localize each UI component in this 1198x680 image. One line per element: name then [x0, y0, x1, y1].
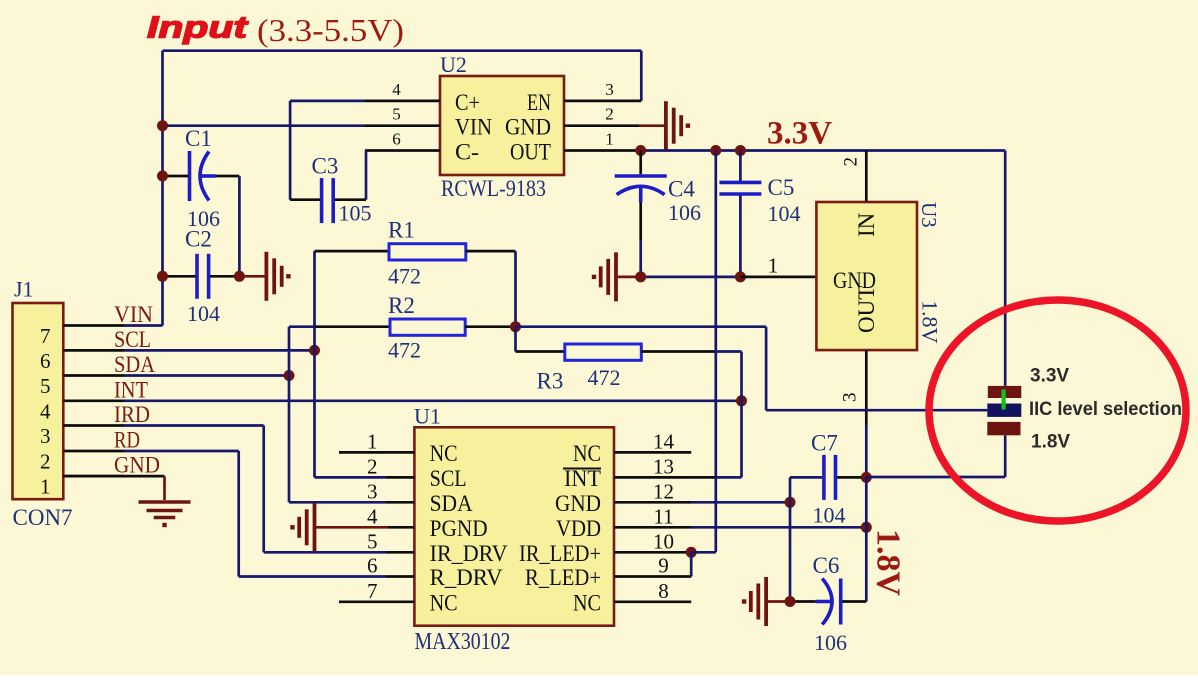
svg-text:1: 1	[605, 130, 614, 149]
resistor R3	[514, 327, 517, 352]
svg-text:NC: NC	[573, 441, 601, 466]
svg-text:472: 472	[388, 264, 421, 289]
wire SCL vertical bus	[313, 251, 316, 477]
svg-text:3: 3	[840, 393, 861, 403]
svg-text:C7: C7	[811, 431, 838, 456]
svg-text:GND: GND	[505, 115, 551, 140]
U1 pin 12 stub	[614, 501, 691, 504]
U3 pin 2 wire	[865, 151, 868, 203]
wire SCL to U1 pin2	[315, 476, 387, 479]
svg-text:INT: INT	[564, 466, 601, 491]
U1 pin 5 stub	[386, 551, 414, 554]
svg-text:CON7: CON7	[13, 505, 73, 530]
wire VIN to U2	[163, 124, 366, 127]
wire LED+ pin9 link	[690, 552, 693, 576]
svg-text:C5: C5	[768, 175, 795, 200]
wire C1 to C2 vertical	[238, 176, 241, 276]
wire RD	[124, 450, 239, 453]
J1 pin 3 stub	[63, 424, 124, 427]
resistor R2	[289, 325, 315, 328]
svg-text:2: 2	[841, 157, 862, 167]
svg-text:7: 7	[40, 324, 51, 348]
svg-text:IR_LED+: IR_LED+	[519, 541, 601, 566]
junction rail C4	[635, 145, 646, 156]
C5 top wire	[739, 151, 742, 182]
svg-text:104: 104	[813, 503, 846, 528]
svg-text:106: 106	[668, 200, 701, 225]
U1 pin 11 stub	[614, 526, 691, 529]
U2 pin 4 stub	[365, 100, 440, 103]
svg-text:11: 11	[653, 504, 673, 528]
J1 pin 1 stub	[63, 475, 124, 478]
svg-text:10: 10	[653, 529, 674, 553]
U1 pin 7 stub	[339, 600, 414, 603]
junction LED+ pins	[686, 547, 697, 558]
wire SDA	[124, 374, 289, 377]
svg-text:R2: R2	[388, 293, 415, 318]
capacitor C5	[719, 181, 761, 185]
svg-text:SDA: SDA	[430, 491, 473, 516]
svg-text:VIN: VIN	[114, 302, 153, 327]
svg-text:6: 6	[367, 554, 378, 578]
svg-text:IR_DRV: IR_DRV	[430, 541, 508, 566]
svg-text:U2: U2	[440, 52, 467, 77]
net LED supply vertical	[714, 151, 717, 553]
jumper pad 3.3V	[988, 386, 1022, 398]
wire ground row to ground symbol	[618, 276, 641, 279]
svg-text:RCWL-9183: RCWL-9183	[441, 176, 546, 201]
svg-text:NC: NC	[430, 590, 458, 615]
svg-text:C6: C6	[813, 553, 840, 578]
wire ground row	[641, 276, 741, 279]
capacitor C1	[188, 151, 192, 201]
net 3.3V rail	[641, 149, 1006, 152]
svg-text:R_LED+: R_LED+	[525, 565, 601, 590]
svg-text:C3: C3	[312, 154, 339, 179]
junction rail C5	[735, 145, 746, 156]
wire PGND to ground	[316, 526, 388, 529]
svg-text:MAX30102: MAX30102	[415, 629, 511, 655]
junction pull-up rail	[510, 321, 521, 332]
svg-text:3: 3	[367, 479, 378, 503]
svg-text:U3: U3	[917, 202, 941, 228]
svg-text:104: 104	[187, 301, 220, 326]
ic U1 body	[414, 427, 614, 625]
capacitor C6	[822, 579, 832, 625]
wire GND from J1	[63, 475, 164, 478]
svg-text:2: 2	[40, 450, 51, 474]
ground C6	[764, 577, 768, 626]
wire VDD net	[691, 526, 866, 529]
J1 pin 5 stub	[63, 374, 124, 377]
svg-text:VDD: VDD	[556, 516, 601, 541]
C1 left wire	[163, 175, 189, 178]
op-amp U2 body	[440, 76, 564, 175]
svg-text:Input: Input	[147, 10, 249, 45]
junction ground row C4	[635, 271, 646, 282]
wire C6 ground	[768, 600, 790, 603]
ground C2	[264, 252, 268, 301]
wire U2 EN drop	[640, 51, 643, 101]
U1 pin 9 stub	[614, 575, 691, 578]
svg-text:2: 2	[367, 454, 378, 478]
svg-text:4: 4	[367, 504, 378, 528]
net VIN top rail wire	[163, 49, 642, 52]
svg-text:3: 3	[40, 424, 51, 448]
net 1.8V vertical	[865, 477, 868, 601]
jumper pad 1.8V	[987, 422, 1020, 435]
wire U2 GND to ground	[640, 124, 665, 127]
svg-text:SCL: SCL	[430, 466, 467, 491]
U1 pin 13 stub	[614, 476, 716, 479]
svg-text:(3.3-5.5V): (3.3-5.5V)	[257, 12, 404, 48]
junction C2 right	[234, 271, 245, 282]
connector J1 body	[13, 303, 64, 499]
svg-text:8: 8	[658, 579, 669, 603]
wire C+ to C3	[290, 100, 365, 103]
wire SDA vertical bus	[288, 327, 291, 503]
svg-text:C1: C1	[185, 126, 212, 151]
junction INT	[736, 395, 747, 406]
svg-text:1.8V: 1.8V	[870, 529, 907, 597]
capacitor C2	[195, 254, 199, 299]
svg-text:R3: R3	[537, 369, 564, 394]
C2 right wire	[210, 275, 239, 278]
junction VDD net	[861, 522, 872, 533]
svg-text:RD: RD	[114, 428, 140, 453]
svg-text:1.8V: 1.8V	[918, 300, 943, 344]
U1 pin 6 stub	[386, 575, 414, 578]
wire C3 to C-	[334, 198, 366, 201]
ground J1	[139, 500, 191, 503]
svg-text:472: 472	[588, 365, 621, 390]
junction SCL	[309, 345, 320, 356]
svg-text:IN: IN	[854, 212, 879, 237]
U1 pin 2 stub	[386, 476, 414, 479]
svg-text:C4: C4	[668, 177, 695, 202]
svg-text:12: 12	[653, 479, 674, 503]
svg-text:6: 6	[40, 349, 51, 373]
junction C6 left	[785, 596, 796, 607]
svg-text:INT: INT	[114, 377, 148, 402]
wire GND net to C7/C6	[691, 501, 790, 504]
U2 pin 6 stub	[365, 149, 440, 152]
svg-text:NC: NC	[573, 590, 601, 615]
U1 pin 14 stub	[614, 451, 691, 454]
svg-text:9: 9	[658, 554, 669, 578]
net pull-up rail to jumper	[516, 325, 767, 328]
svg-text:2: 2	[605, 105, 614, 124]
C4 bottom wire	[639, 202, 642, 240]
svg-text:C+: C+	[455, 90, 480, 115]
svg-text:3.3V: 3.3V	[767, 116, 832, 152]
svg-text:GND: GND	[114, 453, 160, 478]
wire R1 right vertical	[514, 251, 517, 327]
svg-text:1.8V: 1.8V	[1031, 431, 1070, 452]
wire SCL	[124, 349, 315, 352]
J1 pin 7 stub	[63, 324, 124, 327]
wire R3 to INT net	[740, 352, 743, 478]
U1 pin 3 stub	[386, 501, 414, 504]
svg-text:GND: GND	[555, 491, 601, 516]
J1 pin 4 stub	[63, 399, 124, 402]
svg-text:IRD: IRD	[114, 402, 150, 427]
junction C7 right 1.8V	[861, 472, 872, 483]
capacitor C4	[615, 174, 667, 178]
junction C1 left	[157, 171, 168, 182]
junction rail LED supply	[710, 145, 721, 156]
C4 top wire	[639, 151, 642, 175]
J1 pin 6 stub	[63, 349, 124, 352]
svg-text:J1: J1	[14, 277, 34, 302]
svg-text:472: 472	[388, 338, 421, 363]
svg-text:EN: EN	[527, 90, 551, 115]
svg-text:1: 1	[768, 253, 779, 277]
U2 pin 2 stub GND	[564, 124, 640, 127]
U1 pin 10 stub	[614, 551, 691, 554]
jumper shunt	[987, 404, 1021, 417]
resistor R1	[315, 250, 390, 253]
junction ground row C5	[735, 271, 746, 282]
svg-text:4: 4	[40, 399, 51, 423]
wire IRD	[124, 424, 264, 427]
U1 pin 1 stub	[339, 451, 414, 454]
svg-text:R1: R1	[388, 218, 415, 243]
C2 left wire	[163, 275, 196, 278]
U2 pin 1 stub OUT	[564, 149, 641, 152]
svg-text:U1: U1	[414, 404, 441, 429]
ground PGND	[313, 503, 317, 552]
wire 3.3V to jumper top	[1004, 151, 1007, 386]
wire C6 left	[790, 600, 816, 603]
wire INT to U1 pin13	[716, 476, 742, 479]
wire VIN from J1	[124, 324, 163, 327]
red highlight ellipse	[929, 300, 1186, 521]
svg-text:NC: NC	[430, 441, 458, 466]
junction VIN rail	[157, 120, 168, 131]
wire C2 to ground	[239, 275, 264, 278]
svg-text:IIC level selection: IIC level selection	[1029, 399, 1182, 420]
U3 pin 1 stub	[740, 276, 816, 279]
U1 pin 4 stub PGND	[388, 526, 414, 529]
regulator U3 body	[816, 202, 917, 350]
svg-text:14: 14	[653, 429, 675, 453]
wire jumper bottom to 1.8V net	[1004, 435, 1007, 477]
U3 pin 3 wire	[865, 350, 868, 425]
svg-text:1: 1	[40, 475, 51, 499]
svg-text:6: 6	[392, 130, 401, 149]
svg-text:C2: C2	[185, 227, 212, 252]
svg-text:1: 1	[367, 429, 378, 453]
C7 right wire	[837, 476, 866, 479]
wire INT	[124, 399, 742, 402]
svg-text:OUT: OUT	[510, 140, 551, 165]
svg-text:SCL: SCL	[114, 327, 151, 352]
C5 bottom wire	[739, 196, 742, 277]
junction SDA	[284, 370, 295, 381]
svg-text:C-: C-	[455, 140, 479, 165]
svg-text:3.3V: 3.3V	[1030, 366, 1069, 387]
svg-text:7: 7	[367, 579, 378, 603]
svg-text:R_DRV: R_DRV	[430, 565, 503, 590]
svg-text:105: 105	[339, 201, 372, 226]
svg-text:104: 104	[768, 201, 801, 226]
svg-text:5: 5	[40, 374, 51, 398]
U1 INT overline	[563, 468, 601, 470]
U2 pin 5 stub	[365, 124, 440, 127]
svg-text:SDA: SDA	[114, 352, 155, 377]
svg-text:13: 13	[653, 454, 674, 478]
svg-text:PGND: PGND	[430, 516, 488, 541]
svg-text:3: 3	[605, 80, 614, 99]
U1 pin 8 stub	[614, 600, 691, 603]
svg-text:5: 5	[392, 105, 401, 124]
wire VIN left vertical	[161, 51, 164, 326]
svg-text:VIN: VIN	[455, 115, 492, 140]
svg-text:OUT: OUT	[854, 286, 879, 333]
ground C4 row	[614, 252, 618, 301]
wire C7 left	[789, 477, 792, 601]
C1 right wire	[216, 175, 240, 178]
capacitor C7	[822, 455, 826, 500]
junction GND net	[785, 497, 796, 508]
svg-text:4: 4	[392, 80, 401, 99]
J1 pin 2 stub	[63, 450, 124, 453]
svg-text:106: 106	[814, 630, 847, 655]
ground U2 GND	[664, 101, 668, 150]
junction C2 left	[157, 271, 168, 282]
svg-text:5: 5	[367, 529, 378, 553]
wire SDA to U1 pin3	[289, 501, 386, 504]
jumper green link	[1002, 390, 1006, 410]
C6 right wire	[843, 600, 867, 603]
capacitor C3	[320, 178, 324, 223]
U2 pin 3 stub EN	[564, 100, 641, 103]
